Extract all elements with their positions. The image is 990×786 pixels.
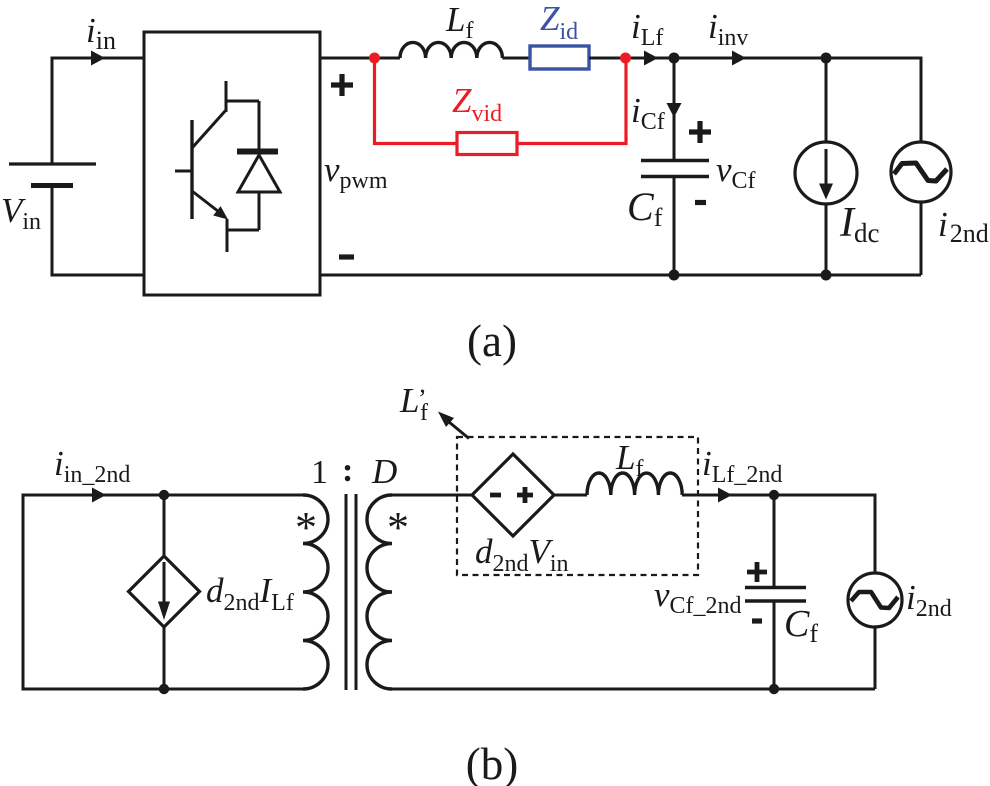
wire emitter to diode xyxy=(227,229,259,232)
label + (vCf) xyxy=(689,121,711,143)
label - (vCf_2nd) xyxy=(752,618,762,623)
label + (vpwm) xyxy=(331,74,353,96)
wire battery top to converter xyxy=(52,58,144,164)
arrow i_in xyxy=(91,51,105,66)
converter box U1 xyxy=(144,32,320,295)
wire collector to diode xyxy=(226,100,259,103)
label + (vCf_2nd) xyxy=(747,562,767,582)
svg-text:*: * xyxy=(387,503,409,552)
wire Zid to node B xyxy=(589,57,625,60)
wire diamond bottom to rail xyxy=(163,627,166,689)
wire inductor to Zid xyxy=(502,57,530,60)
wire bottom rail (a) xyxy=(320,274,921,277)
inductor Lf (a) xyxy=(400,42,502,58)
wire battery bottom to converter xyxy=(52,186,144,276)
wire left loop (b) xyxy=(23,495,303,689)
wire to inductor xyxy=(375,57,401,60)
junction dot top of Idc xyxy=(821,53,832,64)
impedance Zvid (red box) xyxy=(457,133,517,155)
wire diamond to inductor xyxy=(554,494,587,497)
red bypass branch Zvid xyxy=(375,58,627,155)
junction dot bottom of Idc xyxy=(821,270,832,281)
arrow i_Lf xyxy=(644,51,658,66)
wire Cf to bottom rail xyxy=(673,177,676,276)
svg-text:(b): (b) xyxy=(466,739,518,786)
arrow i_inv xyxy=(732,51,746,66)
wire inductor to junction xyxy=(682,494,774,497)
wire node B to junction xyxy=(626,57,675,60)
wire to diamond top xyxy=(163,495,166,556)
svg-text:L: L xyxy=(399,381,419,420)
junction dot bottom of Cf xyxy=(669,270,680,281)
label - (vCf) xyxy=(695,200,706,205)
transformer core xyxy=(346,494,356,690)
junction dot top of source xyxy=(159,490,169,500)
node A (red dot) xyxy=(369,53,380,64)
dashed box L'f xyxy=(457,437,698,575)
svg-text:1: 1 xyxy=(311,454,328,491)
current source Idc xyxy=(795,58,857,275)
arrow i_Cf xyxy=(667,103,682,118)
wire iCf branch xyxy=(673,58,676,160)
inductor Lf (b) xyxy=(587,473,682,495)
label - (vpwm) xyxy=(339,254,354,259)
wire junction to Idc xyxy=(674,57,826,60)
dependent current source d2nd*ILf xyxy=(129,556,200,627)
wire junction to cap xyxy=(773,495,776,588)
ac source i2nd (a) xyxy=(674,58,951,275)
junction dot top of Cf (b) xyxy=(769,490,779,500)
diode D1 xyxy=(237,101,280,230)
svg-text::: : xyxy=(342,452,353,489)
wire top rail (a) xyxy=(320,57,374,60)
junction dot top of Cf xyxy=(669,53,680,64)
wire cap to bottom rail xyxy=(773,601,776,689)
capacitor Cf (a) xyxy=(641,161,709,177)
ac source i2nd (b) xyxy=(774,495,902,689)
svg-text:*: * xyxy=(295,503,317,552)
wire red right xyxy=(517,58,626,144)
dependent voltage source d2nd*Vin xyxy=(472,454,554,536)
arrow i_in_2nd xyxy=(92,488,106,503)
node B (red dot) xyxy=(620,53,631,64)
arrow to L'f label xyxy=(438,412,469,439)
junction dot bottom of Cf (b) xyxy=(769,684,779,694)
transformer T1 secondary winding xyxy=(367,495,392,689)
wire red left xyxy=(375,58,458,144)
impedance Zid (blue box) xyxy=(530,46,589,69)
capacitor Cf (b) xyxy=(745,588,806,602)
svg-text:(a): (a) xyxy=(467,316,517,366)
transformer T1 primary winding xyxy=(303,495,328,689)
arrow i_Lf_2nd xyxy=(718,488,732,503)
wire secondary top to diamond xyxy=(392,494,472,497)
battery V1 (Vin) xyxy=(9,164,96,186)
svg-text:f: f xyxy=(420,400,428,426)
transistor Q1 (IGBT) xyxy=(175,81,228,252)
wire secondary bottom rail xyxy=(392,688,875,691)
svg-text:D: D xyxy=(371,452,397,491)
junction dot bottom of source xyxy=(159,684,169,694)
